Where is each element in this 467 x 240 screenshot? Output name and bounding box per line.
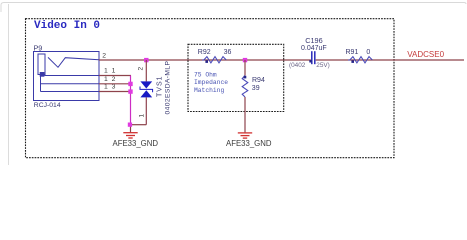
panel frame top (1, 3, 466, 13)
ground symbol AFE33_GND (right) (238, 133, 252, 138)
svg-text:39: 39 (252, 85, 260, 92)
svg-text:3: 3 (112, 84, 116, 91)
wire: TVS top stub (145, 60, 147, 81)
resistor R94 (vertical) (242, 76, 248, 98)
svg-text:Impedance: Impedance (194, 79, 228, 86)
svg-text:R91: R91 (346, 49, 359, 56)
svg-text:36: 36 (224, 49, 232, 56)
svg-text:1: 1 (104, 84, 108, 91)
wire: R94 to ground (244, 97, 246, 132)
svg-text:C196: C196 (305, 36, 322, 45)
dashed group box Video In 0 (26, 19, 395, 158)
dashed box 75 Ohm Impedance Matching (188, 44, 284, 111)
panel frame left (8, 4, 10, 165)
junction at 1-3 (128, 89, 132, 93)
ground symbol AFE33_GND (left) (123, 133, 137, 138)
junction on main wire at R94 (243, 58, 247, 62)
svg-text:R94: R94 (252, 77, 265, 84)
wire: ground stub below jog (130, 125, 132, 133)
wire: main signal C196 to end (316, 59, 464, 61)
svg-text:25V): 25V) (316, 62, 330, 69)
svg-text:AFE33_GND: AFE33_GND (226, 139, 272, 148)
svg-text:0402ESDA-MLP: 0402ESDA-MLP (165, 60, 172, 114)
svg-text:Video In 0: Video In 0 (34, 20, 100, 32)
svg-text:Matching: Matching (194, 87, 224, 94)
wire: TVS bottom stub (145, 97, 147, 124)
svg-text:2: 2 (138, 67, 145, 71)
svg-text:1: 1 (104, 76, 108, 83)
svg-text:0: 0 (366, 49, 370, 56)
connector P9 tip contact square (40, 72, 45, 77)
svg-text:1: 1 (104, 68, 108, 75)
wire: main signal P9 pin2 to C196 (99, 59, 311, 61)
wire: jog to TVS bottom (131, 124, 147, 126)
connector P9 body (34, 52, 100, 101)
svg-text:75 Ohm: 75 Ohm (194, 71, 217, 78)
C196 pin dot (309, 60, 311, 62)
wire: P9 pin 1-2 (99, 83, 131, 85)
resistor R91 (348, 57, 372, 63)
wire: P9 pin 1-3 (99, 91, 131, 93)
svg-text:2: 2 (112, 76, 116, 83)
svg-text:R92: R92 (198, 49, 211, 56)
wire: P9 pin 1-1 (99, 75, 131, 77)
wire: shield bus vertical to ground (130, 76, 132, 125)
junction at ground jog (128, 123, 132, 127)
svg-text:1: 1 (139, 114, 146, 118)
capacitor C196 (312, 51, 315, 64)
svg-text:AFE33_GND: AFE33_GND (113, 139, 159, 148)
svg-text:(0402: (0402 (289, 62, 306, 69)
svg-text:RCJ-014: RCJ-014 (34, 102, 61, 109)
svg-text:2: 2 (102, 53, 106, 60)
junction at 1-2 (128, 82, 132, 86)
resistor R92 (202, 57, 226, 63)
svg-text:0.047uF: 0.047uF (301, 45, 327, 52)
junction on main wire at TVS (144, 58, 148, 62)
wire: R94 top stub (244, 60, 246, 76)
svg-text:TVS1: TVS1 (157, 75, 164, 97)
TVS diode TVS1 (140, 81, 153, 97)
svg-text:1: 1 (112, 68, 116, 75)
svg-text:P9: P9 (34, 43, 43, 52)
svg-text:VADCSE0: VADCSE0 (407, 50, 444, 59)
